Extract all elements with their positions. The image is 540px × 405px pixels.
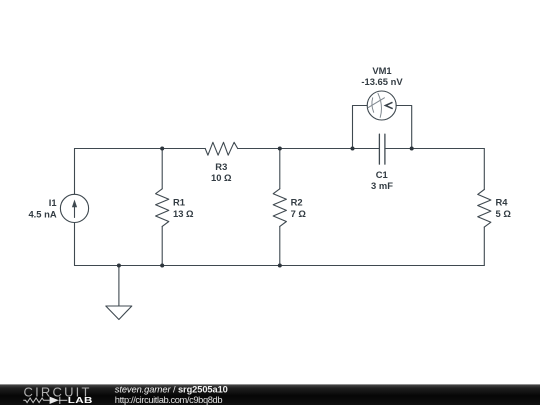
svg-text:I1: I1 xyxy=(49,197,57,208)
resistor R1 xyxy=(156,149,169,266)
wire bottom horizontal xyxy=(75,265,485,267)
svg-text:steven.garner / srg2505a10: steven.garner / srg2505a10 xyxy=(115,385,228,395)
wire top middle horizontal xyxy=(238,148,380,150)
svg-text:4.5 nA: 4.5 nA xyxy=(28,209,56,220)
wire left vertical upper xyxy=(74,149,76,195)
wire voltmeter branch right xyxy=(396,106,412,149)
logo wire with resistor and diode xyxy=(23,397,67,404)
ground xyxy=(106,266,132,320)
svg-text:7 Ω: 7 Ω xyxy=(291,208,307,219)
node bottom of R1 xyxy=(160,264,164,268)
wire left vertical lower xyxy=(74,223,76,266)
wire top left horizontal xyxy=(75,148,206,150)
svg-text:C1: C1 xyxy=(376,169,388,180)
resistor R4 xyxy=(478,149,491,266)
svg-text:5 Ω: 5 Ω xyxy=(496,208,512,219)
svg-text:LAB: LAB xyxy=(68,397,93,405)
svg-text:-13.65 nV: -13.65 nV xyxy=(361,76,403,87)
wire voltmeter branch left xyxy=(353,106,368,149)
svg-text:R1: R1 xyxy=(173,197,185,208)
svg-text:R2: R2 xyxy=(291,197,303,208)
node voltmeter left xyxy=(351,147,355,151)
capacitor C1 xyxy=(379,134,385,164)
svg-text:3 mF: 3 mF xyxy=(371,180,393,191)
resistor R3 xyxy=(205,142,238,155)
footer bar xyxy=(0,384,540,405)
node bottom of R2 xyxy=(278,264,282,268)
node top of R1 xyxy=(160,147,164,151)
svg-text:13 Ω: 13 Ω xyxy=(173,208,194,219)
voltmeter VM1 xyxy=(367,91,396,120)
node top of R2 xyxy=(278,147,282,151)
node voltmeter right xyxy=(410,147,414,151)
svg-text:R4: R4 xyxy=(496,197,509,208)
node ground junction xyxy=(117,264,121,268)
svg-text:VM1: VM1 xyxy=(372,65,391,76)
svg-text:10 Ω: 10 Ω xyxy=(211,172,232,183)
resistor R2 xyxy=(273,149,286,266)
svg-text:http://circuitlab.com/c9bq8db: http://circuitlab.com/c9bq8db xyxy=(115,395,223,405)
wire top right horizontal xyxy=(385,148,484,150)
svg-text:R3: R3 xyxy=(215,161,227,172)
current source I1 xyxy=(60,194,88,222)
